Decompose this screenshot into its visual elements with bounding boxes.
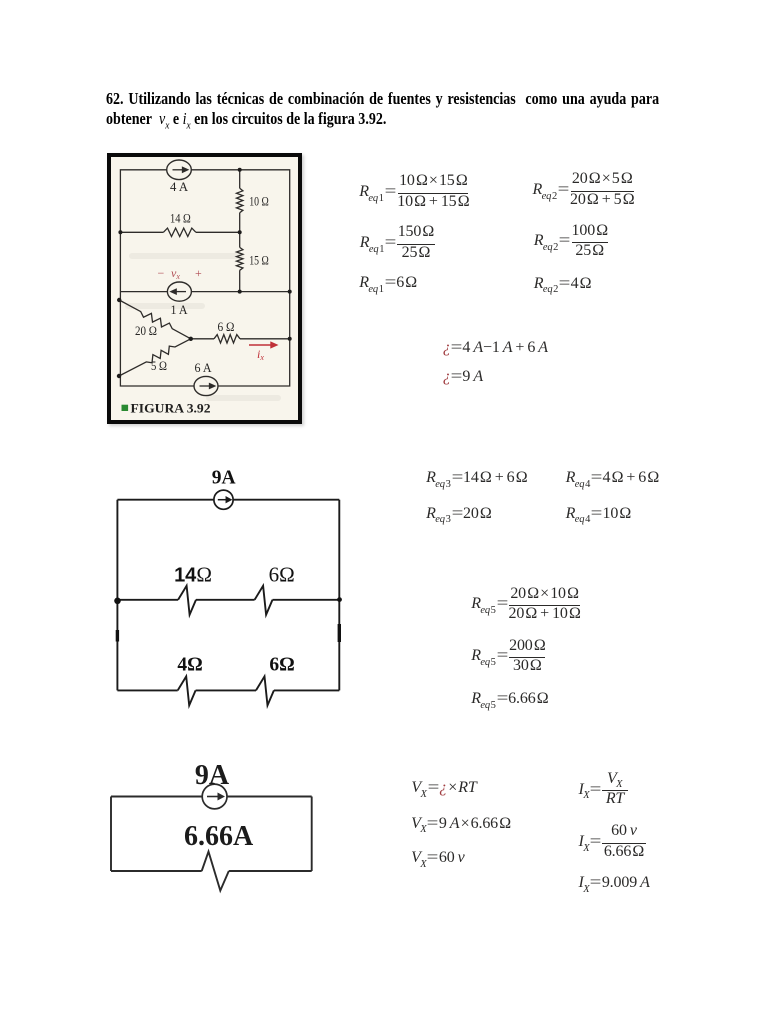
svg-text:20 Ω: 20 Ω	[135, 323, 157, 338]
svg-text:4Ω: 4Ω	[177, 655, 202, 676]
svg-text:14Ω: 14Ω	[174, 563, 212, 587]
svg-text:5 Ω: 5 Ω	[151, 358, 167, 373]
svg-text:6 Ω: 6 Ω	[218, 319, 235, 334]
svg-text:9A: 9A	[195, 760, 230, 791]
svg-text:6Ω: 6Ω	[269, 655, 294, 676]
svg-text:6 A: 6 A	[195, 360, 213, 375]
svg-text:9A: 9A	[212, 467, 236, 488]
svg-text:10 Ω: 10 Ω	[249, 194, 268, 209]
svg-text:vx: vx	[171, 266, 180, 281]
svg-text:14 Ω: 14 Ω	[170, 211, 191, 226]
svg-text:6Ω: 6Ω	[269, 563, 295, 587]
svg-text:ix: ix	[257, 347, 264, 362]
svg-text:−: −	[158, 266, 165, 280]
svg-text:1 A: 1 A	[171, 302, 189, 317]
svg-text:FIGURA 3.92: FIGURA 3.92	[131, 401, 211, 415]
svg-text:4 A: 4 A	[170, 179, 189, 194]
svg-text:+: +	[195, 266, 202, 280]
svg-text:15 Ω: 15 Ω	[249, 253, 268, 268]
svg-text:6.66A: 6.66A	[184, 821, 254, 852]
